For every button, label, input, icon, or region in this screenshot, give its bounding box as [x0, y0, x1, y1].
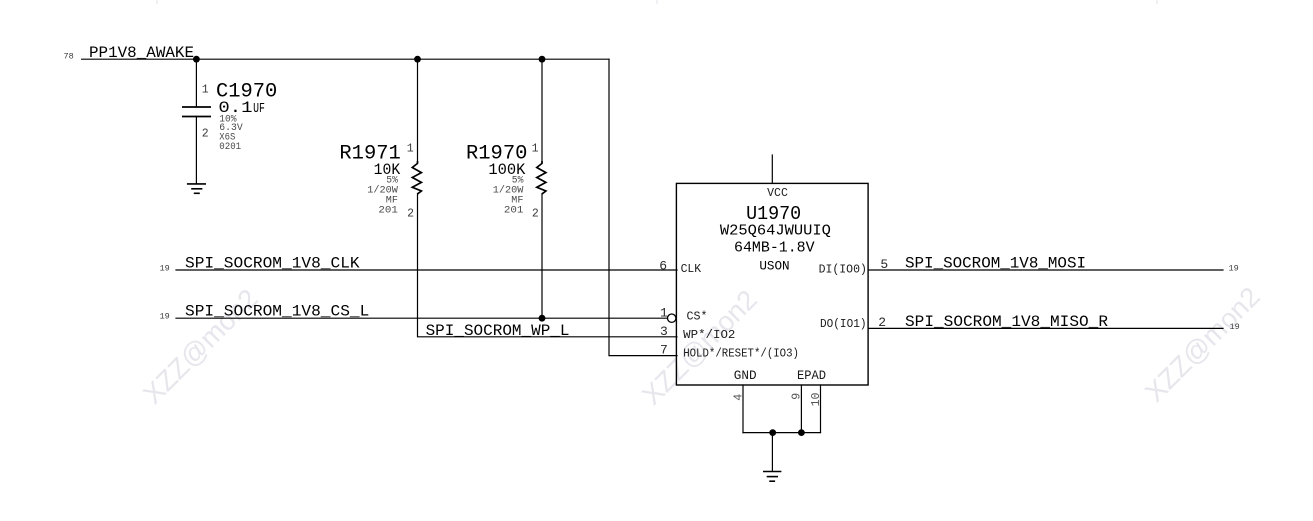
wire PP1V8_AWAKE rail — [82, 58, 609, 60]
svg-text:W25Q64JWUUIQ: W25Q64JWUUIQ — [720, 223, 831, 240]
svg-text:6: 6 — [659, 258, 667, 273]
page border tick marks — [157, 0, 1157, 4]
op text U1970 reference — [720, 203, 831, 273]
wire SPI_SOCROM_1V8_CLK — [176, 269, 677, 271]
svg-text:SPI_SOCROM_1V8_CS_L: SPI_SOCROM_1V8_CS_L — [185, 303, 369, 321]
svg-text:2: 2 — [407, 208, 414, 221]
wire R1971 top — [417, 59, 419, 162]
wire EPAD pin 9 — [800, 385, 802, 433]
resistor R1970 labels — [466, 143, 527, 179]
svg-text:SPI_SOCROM_1V8_MISO_R: SPI_SOCROM_1V8_MISO_R — [905, 313, 1108, 331]
svg-text:SPI_SOCROM_1V8_MOSI: SPI_SOCROM_1V8_MOSI — [905, 255, 1086, 273]
svg-text:1: 1 — [407, 142, 414, 155]
svg-text:HOLD*/RESET*/(IO3): HOLD*/RESET*/(IO3) — [683, 347, 799, 361]
junction node on rail at R1970 — [539, 56, 546, 63]
IC U1970 box — [676, 183, 868, 385]
svg-text:4: 4 — [732, 394, 745, 401]
svg-text:1: 1 — [202, 83, 209, 96]
svg-text:SPI_SOCROM_WP_L: SPI_SOCROM_WP_L — [426, 322, 570, 340]
wire cap top — [195, 59, 197, 107]
svg-text:201: 201 — [504, 206, 524, 217]
svg-text:USON: USON — [759, 260, 789, 274]
wire VCC stub — [771, 155, 773, 183]
junction node EPAD9 — [798, 429, 805, 436]
svg-text:1: 1 — [660, 306, 668, 321]
svg-text:CLK: CLK — [681, 262, 702, 276]
wire rail down to pin 7 — [609, 59, 677, 355]
capacitor C1970 labels — [216, 80, 277, 117]
wire SPI_SOCROM_1V8_MISO_R — [868, 327, 1223, 329]
svg-text:2: 2 — [532, 208, 539, 221]
svg-text:VCC: VCC — [767, 187, 788, 200]
svg-text:UF: UF — [253, 101, 265, 117]
wire bottom connector — [743, 432, 821, 434]
svg-text:2: 2 — [202, 128, 209, 141]
svg-text:WP*/IO2: WP*/IO2 — [683, 328, 735, 342]
resistor R1971 labels — [339, 143, 400, 179]
wire R1970 bottom — [541, 194, 543, 319]
junction node on rail at C1970 — [193, 56, 200, 63]
wire SPI_SOCROM_1V8_CS_L — [176, 317, 667, 319]
svg-text:5: 5 — [880, 257, 888, 272]
svg-text:DO(IO1): DO(IO1) — [820, 317, 867, 331]
resistor R1970 zigzag — [537, 161, 546, 194]
wire ground stem — [771, 433, 773, 471]
svg-text:CS*: CS* — [687, 310, 708, 324]
junction node ground stem — [769, 429, 776, 436]
pin 1 CS bubble — [668, 314, 676, 322]
svg-text:2: 2 — [878, 315, 886, 330]
capacitor C1970 plates — [182, 107, 211, 117]
wire GND pin 4 — [742, 385, 744, 433]
svg-text:GND: GND — [734, 369, 757, 383]
junction node on rail at R1971 — [414, 56, 421, 63]
wire SPI_SOCROM_1V8_MOSI — [868, 269, 1223, 271]
wire cap bottom to ground — [195, 116, 197, 183]
wire R1970 top — [541, 59, 543, 162]
svg-text:78: 78 — [64, 52, 74, 62]
svg-text:19: 19 — [160, 264, 170, 274]
junction node R1970 to CS_L — [539, 315, 546, 322]
svg-text:0201: 0201 — [219, 142, 241, 153]
svg-text:19: 19 — [160, 312, 170, 322]
svg-text:SPI_SOCROM_1V8_CLK: SPI_SOCROM_1V8_CLK — [185, 255, 360, 273]
resistor R1971 zigzag — [412, 161, 421, 194]
svg-text:PP1V8_AWAKE: PP1V8_AWAKE — [89, 44, 194, 62]
ground at C1970 — [187, 184, 206, 193]
svg-text:19: 19 — [1230, 322, 1240, 332]
svg-text:3: 3 — [660, 324, 668, 339]
ground at EPAD — [763, 472, 781, 482]
svg-text:DI(IO0): DI(IO0) — [819, 263, 867, 277]
wire SPI_SOCROM_WP_L — [418, 194, 678, 337]
svg-text:10: 10 — [810, 392, 823, 406]
svg-text:19: 19 — [1229, 264, 1239, 274]
svg-text:9: 9 — [791, 393, 804, 400]
svg-text:EPAD: EPAD — [797, 369, 826, 383]
svg-text:64MB-1.8V: 64MB-1.8V — [734, 240, 815, 257]
wire EPAD pin 10 — [820, 385, 822, 433]
svg-text:7: 7 — [660, 342, 668, 357]
svg-text:201: 201 — [378, 206, 398, 217]
svg-text:1: 1 — [532, 142, 539, 155]
